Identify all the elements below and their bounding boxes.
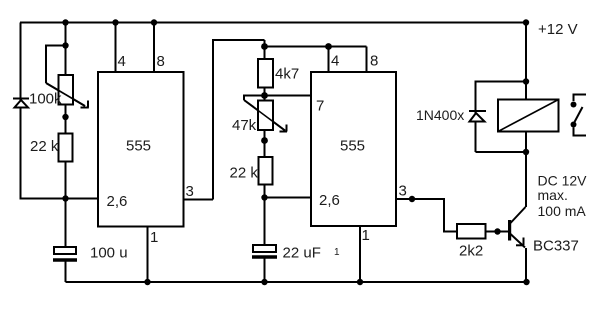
svg-text:555: 555 — [340, 138, 365, 155]
svg-text:4: 4 — [331, 53, 339, 70]
svg-text:100k: 100k — [29, 91, 62, 108]
svg-text:7: 7 — [316, 98, 324, 115]
svg-text:8: 8 — [157, 53, 165, 70]
svg-text:3: 3 — [399, 183, 407, 200]
svg-text:+12 V: +12 V — [538, 21, 578, 38]
svg-text:BC337: BC337 — [533, 238, 579, 255]
svg-text:100 u: 100 u — [90, 245, 128, 262]
svg-text:4k7: 4k7 — [275, 66, 299, 83]
svg-text:22 uF: 22 uF — [283, 245, 321, 262]
svg-text:2,6: 2,6 — [107, 193, 128, 210]
svg-text:3: 3 — [186, 183, 194, 200]
svg-text:1: 1 — [150, 229, 158, 246]
svg-text:555: 555 — [126, 138, 151, 155]
svg-text:47k: 47k — [232, 117, 257, 134]
svg-text:4: 4 — [118, 53, 126, 70]
svg-text:max.: max. — [538, 187, 568, 203]
svg-text:100 mA: 100 mA — [538, 203, 587, 219]
svg-text:22 k: 22 k — [30, 138, 59, 155]
svg-text:1N400x: 1N400x — [416, 107, 464, 123]
svg-text:2,6: 2,6 — [319, 192, 340, 209]
svg-text:1: 1 — [362, 227, 370, 244]
svg-text:8: 8 — [370, 53, 378, 70]
svg-text:2k2: 2k2 — [459, 243, 483, 260]
svg-text:1: 1 — [334, 247, 340, 258]
svg-text:22 k: 22 k — [230, 165, 259, 182]
